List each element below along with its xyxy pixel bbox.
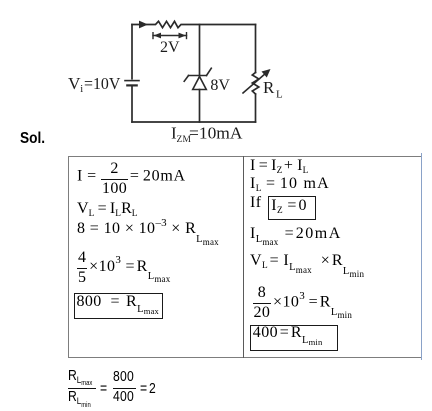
svg-text:8V: 8V bbox=[210, 77, 230, 94]
svg-text:R: R bbox=[263, 78, 275, 97]
svg-text:V: V bbox=[68, 74, 81, 93]
svg-text:=10mA: =10mA bbox=[189, 124, 243, 143]
svg-text:2V: 2V bbox=[160, 39, 180, 56]
svg-text:L: L bbox=[276, 89, 283, 101]
svg-text:=10V: =10V bbox=[84, 74, 121, 93]
svg-text:i: i bbox=[80, 84, 83, 95]
